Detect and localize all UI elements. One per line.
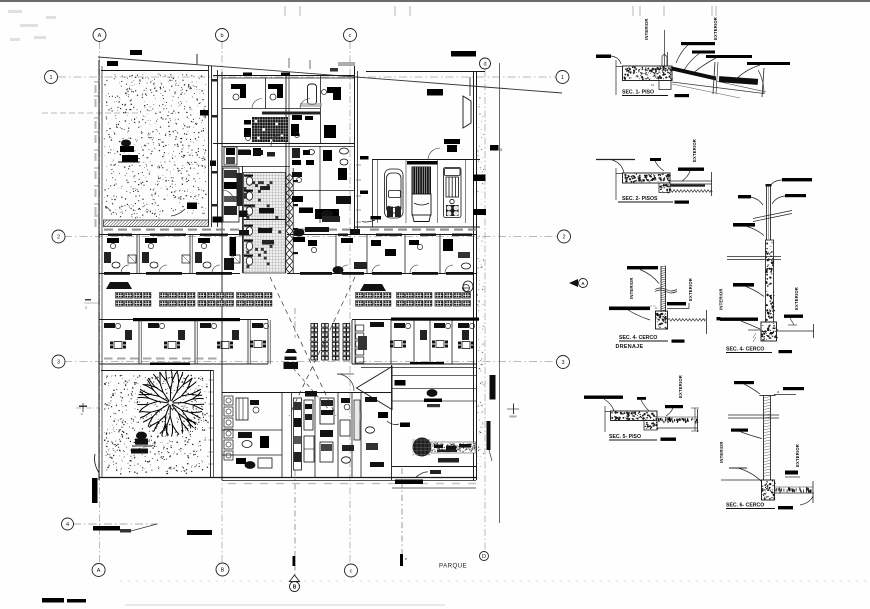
garage lintel black bar — [407, 161, 438, 165]
svg-text:B: B — [221, 568, 225, 574]
svg-text:3: 3 — [561, 360, 564, 366]
grid bubble d — [480, 58, 491, 69]
exterior step line below hall — [392, 487, 476, 489]
band1 right door arcs — [340, 265, 348, 273]
SEC6 soil strip right — [776, 487, 811, 493]
svg-text:EXTERIOR: EXTERIOR — [692, 139, 697, 162]
SEC6 ground line left — [721, 479, 762, 481]
band1 furniture right rooms — [293, 237, 305, 242]
horizontal grid 4 short — [73, 523, 158, 525]
SEC2 left line callout — [596, 159, 635, 161]
band2 right room black marks — [370, 322, 384, 327]
SEC2 small bar — [650, 158, 661, 161]
SEC1 end ticks — [713, 62, 715, 94]
svg-text:SEC. 2- PISOS: SEC. 2- PISOS — [622, 196, 658, 202]
service area walls — [222, 392, 392, 394]
garden right wall dim ticks — [209, 379, 214, 381]
faint lower page dotted line — [120, 580, 868, 582]
rooms y146-223 middle column — [290, 190, 354, 192]
grid bubble A — [93, 29, 106, 42]
grid bubble c — [345, 564, 358, 577]
garden stipple — [104, 375, 209, 475]
garage top wall — [372, 159, 480, 161]
dim tick y408 — [76, 407, 99, 409]
right dim tick x513 — [507, 408, 519, 410]
SEC4R break diagonals — [753, 211, 792, 219]
garden right wall — [210, 370, 212, 478]
svg-text:b: b — [220, 33, 223, 39]
SEC4L right tick — [706, 310, 708, 334]
SEC2 slab — [623, 173, 671, 183]
svg-text:EXTERIOR: EXTERIOR — [678, 375, 683, 398]
band2 furniture: table with chairs + bed per room — [114, 342, 122, 349]
svg-text:d: d — [483, 62, 486, 68]
SEC4L long left bar — [609, 307, 650, 311]
grid bubble 2 — [52, 230, 65, 243]
svg-text:SEC. 4- CERCO: SEC. 4- CERCO — [619, 335, 657, 341]
SEC5 right tick — [697, 409, 699, 432]
bottom-left scale bars — [42, 598, 64, 603]
dimension text row y228 — [104, 229, 113, 231]
svg-text:a: a — [777, 390, 779, 394]
mid rooms furniture — [292, 115, 302, 120]
SEC6 post cap — [760, 395, 776, 397]
room 338-361 — [341, 398, 350, 403]
grid bubble 3 — [557, 356, 570, 369]
entrance door triangle — [357, 367, 393, 410]
grid bubble b — [216, 29, 229, 42]
tiled bath floor zone — [244, 173, 286, 274]
horizontal grid 1 — [58, 76, 556, 78]
top-right wall horizontal — [366, 71, 485, 73]
SEC4L ground zigzag right — [668, 319, 706, 322]
mid column extra furniture y146-227 — [292, 148, 300, 158]
SEC6 dim mark left — [694, 408, 696, 431]
car 3 truck — [444, 168, 462, 218]
hall desk marks — [395, 380, 406, 386]
wall x354 vertical double — [354, 66, 356, 232]
SEC4L right bar + step — [667, 302, 686, 305]
svg-text:c: c — [349, 33, 352, 39]
left outer wall double — [98, 60, 100, 480]
svg-text:1: 1 — [561, 75, 564, 81]
SEC1 slab step — [659, 81, 671, 90]
SEC1 concrete slab — [623, 66, 673, 81]
grid bubble 4 — [62, 518, 74, 530]
SEC4R right bar — [784, 315, 803, 318]
bath black fixtures — [259, 208, 274, 214]
SEC6 post — [763, 396, 765, 480]
svg-text:1: 1 — [49, 75, 52, 81]
SEC5 right bar — [665, 405, 683, 408]
SEC6 left bar mid — [731, 429, 748, 432]
office lower wall y108 — [222, 108, 320, 110]
SEC2 exterior floor lines — [670, 180, 712, 182]
band2 partitions — [138, 320, 140, 364]
kitchen counters mid — [294, 398, 302, 470]
SEC5 long top bar — [584, 396, 623, 399]
grid bubble A — [92, 564, 105, 577]
svg-text:EXTERIOR: EXTERIOR — [713, 17, 718, 40]
SEC4R ground lines — [748, 329, 761, 331]
wall x320 vertical — [320, 76, 322, 143]
extra boundary vertical line right — [499, 63, 501, 523]
svg-text:3: 3 — [57, 360, 60, 366]
garage left wall marks — [360, 156, 369, 160]
tree — [138, 370, 204, 436]
svg-text:2: 2 — [57, 235, 60, 241]
svg-text:A: A — [98, 33, 102, 39]
SEC1 slope lines below — [672, 82, 764, 94]
thick black wall bar left bottom — [92, 478, 98, 503]
patio wall black marks — [200, 110, 209, 116]
svg-text:2: 2 — [85, 306, 87, 310]
tiny vents above office wall — [243, 73, 252, 77]
svg-text:4: 4 — [66, 522, 69, 528]
SEC1 wall above slab — [664, 30, 666, 66]
garage bottom wall — [354, 226, 480, 228]
right corridor earth stipple — [477, 97, 484, 466]
svg-text:SEC. 6- CERCO: SEC. 6- CERCO — [726, 503, 764, 509]
black column corridor — [230, 237, 237, 256]
exam table middle room — [308, 84, 317, 105]
right side black bars outside wall — [490, 375, 496, 400]
grid bubble D — [480, 552, 489, 561]
grid line d vertical — [484, 70, 486, 550]
grid bubble 1 — [556, 71, 569, 84]
svg-text:SEC. 1- PISO: SEC. 1- PISO — [622, 90, 654, 96]
buffet head blocks — [106, 282, 132, 289]
car 1 sedan — [385, 169, 404, 218]
svg-text:INTERIOR: INTERIOR — [629, 277, 634, 299]
hall top line — [361, 367, 476, 369]
SEC1 sloped pavement thick — [672, 67, 716, 81]
SEC6 left thin line — [729, 467, 747, 469]
patio corridor wall — [211, 66, 213, 227]
SEC4L break wave — [655, 288, 677, 291]
dim line y113 left — [42, 112, 138, 114]
svg-text:INTERIOR: INTERIOR — [719, 288, 724, 310]
hall lower black bars — [438, 458, 459, 463]
SEC4R post thin top — [766, 185, 768, 240]
SEC2 zigzag ground — [669, 190, 712, 193]
top wall offices — [213, 75, 354, 77]
SEC4R footing — [761, 322, 777, 341]
courtyard dashed X — [270, 277, 336, 416]
dimension text row bottom — [228, 483, 236, 484]
SEC4R top bars — [782, 178, 812, 181]
SEC4L post with hatch — [660, 266, 662, 312]
section marker B bottom w/ triangle — [290, 575, 300, 582]
svg-text:EXTERIOR: EXTERIOR — [795, 444, 800, 467]
office partition x265 — [265, 78, 267, 109]
svg-text:PARQUE: PARQUE — [439, 563, 467, 570]
band1 small bath squares — [128, 255, 136, 263]
garage divider walls — [372, 160, 374, 227]
SEC6 footing — [762, 480, 775, 500]
patio court stipple area — [101, 70, 208, 72]
svg-text:SEC. 4- CERCO: SEC. 4- CERCO — [726, 347, 764, 353]
SEC5 slab — [611, 411, 658, 421]
svg-text:s: s — [81, 412, 83, 416]
SEC4R mid-left bar — [733, 283, 754, 287]
SEC5 small bar — [637, 397, 646, 400]
grid line B-prime bottom vertical — [294, 470, 296, 578]
top right room objects — [451, 51, 476, 57]
corridor x361-391 — [365, 397, 377, 402]
SEC6 right tick — [812, 481, 814, 503]
north/section arrow A mid right — [569, 279, 578, 287]
garden planter bottom — [137, 432, 147, 439]
door arcs offices — [252, 99, 262, 109]
dim row above garden — [104, 358, 113, 360]
corridor door ticks x291-300 — [294, 180, 299, 182]
wall x286 vertical — [285, 76, 287, 227]
dim tick y303 — [84, 302, 99, 304]
band1 bottom wall — [99, 273, 240, 275]
SEC4L footing — [656, 311, 668, 329]
corridor/kitchen block x222-290 y146-166 — [222, 166, 290, 168]
SEC2 bar — [678, 168, 704, 171]
wall y143-146 — [213, 143, 354, 145]
stair diamonds right edge — [286, 174, 293, 273]
band1 partitions right — [335, 235, 337, 273]
grid Bp dash inside corridor — [294, 308, 296, 338]
SEC1 left callout bar — [596, 55, 611, 59]
band1 partitions left — [136, 235, 138, 273]
svg-text:INTERIOR: INTERIOR — [719, 441, 724, 463]
svg-text:c: c — [350, 569, 353, 575]
garden top wall — [101, 370, 213, 372]
svg-text:D: D — [482, 554, 486, 560]
SEC5 grass strip — [659, 417, 698, 423]
SEC4L top bar — [627, 266, 658, 269]
right outer wall double — [473, 71, 475, 480]
grid line at x402 bottom vertical — [401, 468, 403, 566]
SEC5 step down — [644, 421, 657, 431]
svg-text:1: 1 — [692, 417, 694, 421]
SEC6 top bar — [734, 381, 754, 384]
office dark wall segment y113 — [262, 112, 320, 115]
svg-text:2: 2 — [562, 235, 565, 241]
SEC4R long horiz lines — [727, 256, 781, 258]
desks in offices — [231, 84, 246, 89]
dining table groups row — [116, 293, 151, 307]
garden gate arc — [95, 454, 100, 473]
hall speckled band — [431, 442, 476, 453]
SEC4R left bar2 — [733, 223, 755, 227]
horizontal grid 2 — [64, 236, 557, 238]
SEC6 long horiz double line — [728, 414, 779, 416]
svg-text:.15: .15 — [650, 83, 655, 87]
vertical side tables x 252-266 — [356, 325, 364, 331]
band2 bottom wall — [99, 363, 268, 365]
SEC6 right bars — [785, 471, 798, 475]
grid line b vertical — [221, 42, 223, 562]
SEC4R left long bar — [720, 318, 758, 321]
top page border line — [0, 0, 870, 2]
site boundary diagonal top — [98, 57, 562, 93]
ramp walls — [242, 166, 244, 273]
left service room furniture — [236, 398, 248, 420]
svg-text:SEC. 5- PISO: SEC. 5- PISO — [609, 434, 641, 440]
left wall dimension ticks — [94, 81, 99, 83]
svg-text:EXTERIOR: EXTERIOR — [794, 287, 799, 310]
right wall black marks — [473, 175, 486, 182]
grid bubble c — [344, 29, 357, 42]
tiled bathroom dark — [252, 117, 288, 142]
horizontal grid 3 — [64, 361, 556, 363]
band1 top wall — [99, 234, 240, 236]
grid line A vertical — [99, 42, 101, 562]
SEC5 lower line — [657, 427, 698, 429]
top mid black ticks — [107, 61, 118, 66]
SEC1 right callout bars — [681, 42, 715, 45]
SEC2 right tick — [711, 172, 713, 196]
hall pool circle — [413, 438, 432, 457]
SEC6 top right bar+line — [783, 387, 804, 390]
svg-text:A: A — [97, 568, 101, 574]
svg-text:DRENAJE: DRENAJE — [616, 344, 644, 350]
right dim ticks x358-362 — [356, 164, 361, 166]
svg-text:EXTERIOR: EXTERIOR — [688, 278, 693, 301]
room above tiles black desks — [238, 150, 250, 156]
grid line c vertical — [349, 42, 351, 562]
band1 furniture left rooms — [107, 238, 119, 243]
grid bubble 1 — [45, 71, 58, 84]
SEC2 step down — [659, 183, 670, 193]
scale bar bottom — [187, 530, 212, 535]
grid bubble 2 — [558, 230, 571, 243]
corridor planter dark stack — [285, 349, 297, 353]
faint corner dimension smudges — [8, 10, 22, 13]
grid bubble 3 — [52, 355, 65, 368]
SEC4R post stippled — [766, 240, 774, 322]
band2 top black wall bars — [133, 318, 240, 321]
bottom outer wall — [99, 477, 476, 479]
svg-text:INTERIOR: INTERIOR — [644, 18, 649, 40]
kitchen right column — [320, 398, 334, 424]
stacked chairs ladder columns — [311, 324, 350, 361]
tall dark column left of tiles — [237, 173, 243, 206]
grid bubble B — [216, 563, 229, 576]
wall x222 — [221, 72, 223, 480]
vertical dim text left of hall — [360, 411, 363, 421]
kitchen counters x222-240 y166-223 — [223, 168, 239, 222]
bath mid wall — [244, 219, 286, 221]
car 2 van striped — [412, 167, 432, 195]
patio planters — [120, 146, 134, 152]
laundry column x224-233 — [224, 396, 233, 405]
svg-text:B: B — [293, 585, 297, 591]
toilets on tile — [246, 177, 252, 185]
hall stage lines — [392, 375, 476, 377]
faint header tick marks — [284, 6, 286, 16]
